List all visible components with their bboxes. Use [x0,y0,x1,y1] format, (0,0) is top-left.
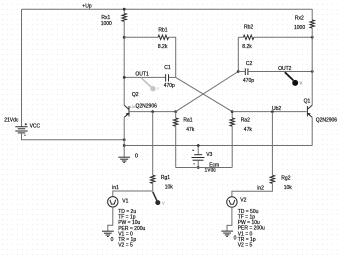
ground 0 (center) [118,157,130,162]
wire Q2 emitter column to ground [123,117,125,157]
svg-text:Q2N2906: Q2N2906 [316,117,338,123]
wire OUT1 row [124,76,165,78]
svg-text:v: v [300,80,303,86]
svg-text:1Vdc: 1Vdc [205,168,217,174]
probe OUT2 (black) [285,72,303,86]
svg-text:47k: 47k [244,127,253,133]
junction dot OUT1 [123,76,126,79]
svg-text:C1: C1 [164,65,171,71]
V2 parameter text block [238,209,265,249]
junction dot base/Rg2 [271,110,274,113]
resistor Ra1 [175,112,177,118]
wire diagonal C1/Rb1 node to Q1 base node [176,77,233,111]
svg-text:v: v [162,201,165,207]
wire Q1 base row [232,111,306,113]
svg-text:V2 = 5: V2 = 5 [118,243,133,249]
wire top rail +Up [22,8,313,10]
wire left drop from rail to VCC [21,9,23,126]
svg-text:Q1: Q1 [304,99,311,105]
resistor Rg2 [271,112,273,176]
junction dot left-rail/emitter [123,138,126,141]
svg-text:in2: in2 [257,186,264,192]
junction dot OUT2/Rx2 [311,70,314,73]
svg-text:8.2k: 8.2k [158,44,168,50]
svg-text:Rg2: Rg2 [281,175,290,181]
probe in1 (black) [153,192,165,207]
svg-text:in1: in1 [112,185,119,191]
svg-text:0: 0 [234,236,237,242]
wire Q1 emitter column [311,117,313,145]
resistor Rg1 [152,112,154,176]
svg-text:Q2: Q2 [132,92,139,98]
svg-text:Rb2: Rb2 [244,25,253,31]
svg-text:47k: 47k [186,127,195,133]
junction dot Rx1 bottom / Rb1 [123,36,126,39]
svg-text:V2: V2 [240,198,246,204]
svg-text:C2: C2 [246,61,253,67]
svg-text:VCC: VCC [30,123,41,129]
source V1 (VPULSE) [108,197,118,207]
junction dot V3 top [197,144,200,147]
resistor Ra2 [231,112,233,118]
wire diagonal C2 node to Q2 base node [176,72,239,112]
svg-text:Rx2: Rx2 [295,15,304,21]
ground V1 [102,231,114,236]
wire emitter rail to Q1 [124,145,312,147]
svg-text:OUT2: OUT2 [278,66,292,72]
junction dot emitter rail start [123,144,126,147]
ground V2 [221,231,233,236]
battery V3 Ecm [192,146,205,168]
svg-text:+Up: +Up [82,4,92,10]
wire Q2 base row [130,111,176,113]
svg-text:Q2N2906: Q2N2906 [136,104,158,110]
wire C1 right to corner [169,76,176,78]
svg-text:0: 0 [135,153,138,159]
transistor Q1 (Q2N2906 PNP) [307,105,312,117]
svg-text:8.2k: 8.2k [242,44,252,50]
svg-text:0: 0 [111,237,114,243]
junction dot V3 bottom [197,166,200,169]
resistor Rx2 [311,9,313,20]
svg-text:V3: V3 [206,152,212,158]
probe OUT1 (gray, unselected) [141,78,160,92]
wire V1 bottom to ground [108,206,113,231]
resistor Rb2 [238,36,243,38]
source V2 (VPULSE) [227,197,237,207]
wire OUT2 row [248,71,312,73]
junction dot Rb2/Rx2 [311,36,314,39]
svg-text:V1: V1 [122,198,128,204]
V1 parameter text block [118,209,145,249]
svg-text:Ra1: Ra1 [183,118,192,124]
junction dot top rail at Rx1 [123,8,126,11]
battery VCC V-source [15,123,27,136]
svg-text:1000: 1000 [101,21,112,27]
svg-text:10k: 10k [284,185,293,191]
capacitor C1 [166,74,169,81]
svg-text:470p: 470p [164,83,175,89]
svg-text:OUT1: OUT1 [135,72,149,78]
svg-text:10k: 10k [165,184,174,190]
wire V3 bottom row Ra1-Ra2 [176,167,233,169]
junction dot C2 left node [237,70,240,73]
svg-text:21Vdc: 21Vdc [4,117,19,123]
resistor Rx1 [123,9,125,13]
resistor Rb1 [124,36,158,38]
svg-text:1000: 1000 [294,25,305,31]
junction dot base/Rg1 [151,110,154,113]
capacitor C2 [245,68,248,75]
junction dot Q2 base node [174,110,177,113]
wire Rx1 bottom to OUT1 column [123,21,125,105]
svg-text:Ra2: Ra2 [241,117,250,123]
wire VCC bottom to emitter column [22,133,125,140]
svg-text:Rg1: Rg1 [161,175,170,181]
svg-text:Rx1: Rx1 [101,15,110,21]
junction dot Q1 base node [231,110,234,113]
transistor Q2 (Q2N2906 PNP) [124,105,129,117]
svg-text:Rb1: Rb1 [158,28,167,34]
wire C2 left stub [238,71,245,73]
svg-text:470p: 470p [243,78,254,84]
svg-text:V2 = 5: V2 = 5 [238,243,253,249]
wire V2 bottom to ground [227,207,232,231]
